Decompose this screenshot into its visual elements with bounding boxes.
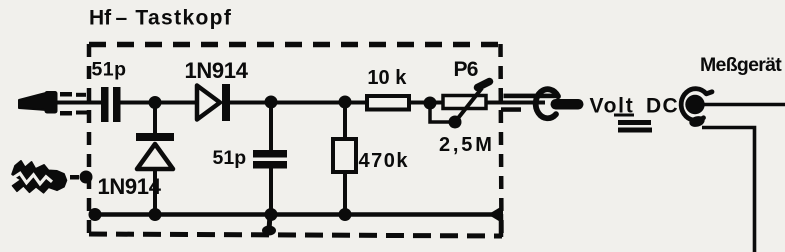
wire R2 to P6 [409,101,443,105]
node B junction dot (C2) [265,96,278,109]
svg-text:Hf: Hf [89,7,112,30]
clip stub dash [70,175,79,180]
stub rail to box corner [499,214,504,237]
white jaw slot [10,173,52,184]
wiper junction dot [449,116,462,129]
ground junction dot R1 [339,208,352,221]
meter plug dot [685,95,704,114]
alligator clip [12,161,67,193]
node D junction dot (wiper tie) [424,97,437,110]
ground junction dot D2 [149,208,162,221]
svg-text:–: – [116,7,128,30]
wire C1 to D1 [120,101,196,105]
svg-text:10 k: 10 k [367,67,407,89]
dashed shield box bottom edge [89,234,502,236]
connector pin (plug) [551,99,584,110]
svg-text:2,5M: 2,5M [439,134,495,156]
node C junction dot (R 470k) [339,96,352,109]
connector socket (C shape) [536,89,558,118]
capacitor C2 51p (shunt) [269,102,273,151]
potentiometer P6 2,5M [443,96,486,109]
svg-text:51p: 51p [213,147,247,169]
dash foot at box edge (upper) [76,93,86,97]
wire P6 to connector [486,101,545,105]
dashed shield box top edge [89,42,501,48]
svg-text:DC: DC [646,94,679,117]
clip node dot on shield [80,171,93,184]
resistor R2 10k (series) [367,96,409,110]
ground junction dot left end [89,208,102,221]
wire probe to C1 [55,101,101,105]
svg-text:1N914: 1N914 [98,174,162,199]
ground rail right-end blob [488,206,503,224]
DC symbol bars [618,120,651,125]
connector shell bar lower [501,107,521,112]
svg-text:51p: 51p [92,59,127,81]
svg-text:Tastkopf: Tastkopf [135,7,232,30]
dashed link probe to box (upper) [60,92,72,97]
svg-text:Meßgerät: Meßgerät [700,54,782,76]
ground junction dot C2 [265,208,278,221]
diode D1 1N914 (series) [197,84,230,121]
underline under lt [614,114,634,117]
dash foot at box edge (lower) [76,111,87,115]
resistor R1 470k (shunt) [343,102,347,139]
meter socket lug blob [688,114,706,128]
wire wiper tie-down [430,103,455,122]
dashed link probe to box (lower) [60,111,72,116]
node A junction dot [149,96,162,109]
wire meter ground down right side [702,128,755,252]
wiper arrow [455,88,482,122]
stub below C2 dot [269,214,270,231]
svg-text:1N914: 1N914 [185,58,249,83]
svg-text:470k: 470k [359,150,410,172]
dashed shield box right edge [501,44,502,238]
probe tip [19,92,57,114]
diode D2 1N914 (shunt, cathode up) [153,102,157,134]
svg-text:P6: P6 [454,58,478,81]
connector shell bar upper [504,94,559,99]
wire D1 to node B [230,101,367,105]
dashed shield box left edge [87,44,92,236]
ground rail [93,212,500,217]
wire meter to right edge [703,103,785,107]
meter socket ring [681,89,712,121]
capacitor C1 51p (series) [101,87,121,122]
